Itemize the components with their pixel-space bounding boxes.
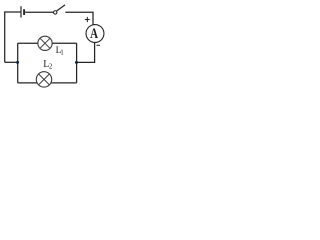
wire left connector to parallel block: [5, 61, 18, 63]
wire top-left horizontal from corner to battery: [5, 12, 21, 62]
lamp L1: [38, 36, 52, 50]
node left rail of parallel block: [17, 43, 19, 83]
ammeter U1 circle: [86, 25, 104, 43]
wire battery to switch: [25, 11, 53, 13]
node right rail of parallel block: [76, 43, 78, 83]
lamp L2: [36, 72, 51, 87]
junction node right: [75, 61, 78, 64]
wire top branch through L1: [18, 42, 77, 44]
ammeter plus terminal label: [85, 17, 90, 22]
battery cell long plate: [20, 6, 22, 17]
svg-text:1: 1: [60, 49, 64, 57]
wire right connector to ammeter: [77, 42, 95, 62]
wire bottom branch through L2: [18, 82, 77, 84]
wire switch to top-right corner and down to ammeter: [65, 12, 93, 26]
switch pivot circle: [54, 11, 57, 14]
switch lever: [56, 5, 65, 11]
junction node left: [16, 61, 19, 64]
svg-text:A: A: [90, 26, 98, 42]
battery cell short thick plate: [23, 9, 25, 15]
svg-text:2: 2: [49, 62, 53, 70]
ammeter minus terminal label: [97, 44, 101, 46]
